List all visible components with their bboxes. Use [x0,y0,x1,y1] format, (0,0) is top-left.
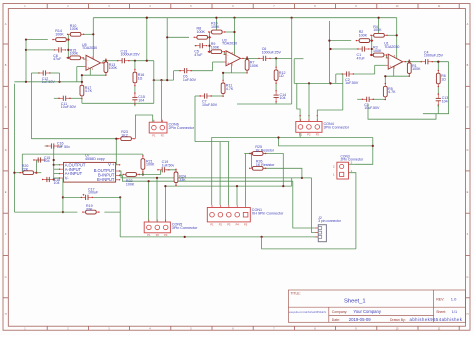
junction [148,180,150,182]
junction [408,61,410,63]
wire [175,183,177,186]
junction [58,81,60,83]
wire [223,52,225,55]
junction [384,75,386,77]
svg-text:D: D [467,149,469,152]
wire [81,97,83,99]
junction [62,196,64,198]
junction [208,51,210,53]
wire [234,18,236,55]
junction [142,173,144,175]
svg-text:+: + [227,61,229,65]
wire [387,34,397,36]
wire [194,96,196,142]
wire [63,196,81,198]
junction [115,138,117,140]
wire [231,63,233,73]
wire [228,142,230,205]
wire [82,74,106,76]
wire [215,18,217,30]
wire [59,73,61,82]
wire [21,154,23,173]
wire [312,178,315,233]
wire [76,67,78,74]
wire [53,49,55,51]
wire [120,236,318,238]
junction [437,61,439,63]
svg-text:P3: P3 [316,133,320,137]
resistor R23 [117,130,134,140]
svg-text:easyeda.com/abhishek9654abhi: easyeda.com/abhishek9654abhi [289,310,327,314]
capacitor C13 [436,93,449,105]
wire [164,186,166,222]
wire [148,181,150,222]
wire [437,105,439,107]
svg-text:C15104: C15104 [138,95,145,102]
wire [13,84,15,212]
capacitor C6 [258,47,281,61]
wire [384,76,386,83]
wire [102,61,104,63]
capacitor C1 [357,46,370,60]
wire [103,60,118,62]
wire [219,142,221,205]
junction [146,17,148,19]
resistor R15 [67,48,84,59]
wire [357,48,359,50]
svg-text:C15104: C15104 [44,156,51,163]
resistor R11 [221,80,234,97]
resistor R10 [208,22,225,34]
resistor R12 [274,67,285,84]
svg-text:+: + [87,66,89,70]
junction [166,36,168,38]
capacitor C12 [38,70,55,84]
wire [82,102,154,104]
junction [236,185,238,187]
wire [251,154,253,169]
resistor R10 [67,24,84,36]
wire [385,75,409,77]
capacitor C18 [42,177,60,185]
svg-text:D: D [5,149,7,152]
wire [378,18,380,34]
wire [167,36,189,38]
resistor R24 [174,169,186,186]
wire [270,57,292,59]
junction [251,152,253,154]
wire [92,196,120,198]
resistor R16 [133,69,144,86]
wire [372,98,385,100]
connector J2 [315,216,342,242]
junction [92,33,94,35]
wire [437,62,439,71]
wire [120,171,312,178]
svg-text:P2: P2 [307,133,311,137]
svg-text:P3: P3 [227,222,231,226]
wire [105,73,107,76]
wire [308,83,310,121]
svg-text:Company:: Company: [332,310,348,314]
resistor R22 [123,173,140,187]
capacitor C5 [194,43,207,57]
wire [279,138,373,146]
wire [134,104,136,106]
junction [329,82,331,84]
svg-text:C: C [5,106,7,109]
svg-text:C: C [467,106,469,109]
wire [437,87,439,95]
wire [294,82,343,84]
junction [25,81,27,83]
svg-text:H: H [5,313,7,316]
wire [153,61,155,104]
wire [353,73,374,75]
resistor R7 [245,56,259,73]
resistor R4 [370,25,387,37]
connector CON3 [333,154,364,179]
op-amp U7 4558D [59,154,121,182]
wire [384,98,386,100]
wire [423,62,449,114]
svg-text:P1: P1 [210,222,214,226]
svg-text:1/1: 1/1 [452,310,457,314]
wire [142,154,144,156]
wire [54,177,60,179]
junction [291,17,293,19]
wire [263,154,283,187]
wire [195,95,201,97]
junction [372,145,374,147]
capacitor C11 [58,96,76,109]
wire [31,72,39,74]
svg-text:Drawn By:: Drawn By: [390,318,406,322]
wire [26,49,55,51]
svg-text:R231K2: R231K2 [121,130,128,137]
wire [54,173,60,175]
junction [67,57,69,59]
wire [83,58,86,60]
wire [14,172,20,174]
resistor R13 [104,59,118,76]
wire [26,39,48,41]
wire [244,153,251,155]
svg-text:G: G [5,276,7,279]
connector CON5 [144,220,198,238]
capacitor C3 [362,97,380,110]
wire [54,164,60,166]
wire [210,95,223,97]
wire [174,70,181,72]
capacitor C4 [421,50,444,64]
svg-text:P1: P1 [299,133,303,137]
wire [156,178,158,222]
wire [328,21,330,83]
junction [208,36,210,38]
title block [288,290,465,322]
wire [357,98,363,100]
wire [134,86,136,94]
wire [135,115,152,139]
svg-text:2019-05-09: 2019-05-09 [349,317,372,322]
op-amp U5 [82,43,104,71]
svg-text:R1922K: R1922K [86,204,93,211]
svg-text:G: G [467,276,469,279]
wire [35,160,37,173]
resistor R6 [436,70,446,87]
junction [67,49,69,51]
resistor R17 [80,82,93,99]
junction [329,48,331,50]
wire [317,236,319,238]
capacitor C16 [46,142,70,149]
wire [222,73,224,80]
capacitor C6 [179,68,196,82]
junction [282,185,284,187]
svg-text:P4: P4 [236,222,240,226]
wire [115,164,118,166]
wire [437,105,439,114]
junction [261,236,263,238]
junction [13,172,15,174]
wire [129,60,154,62]
resistor R2 [356,30,373,43]
capacitor C8 [53,47,66,61]
wire [45,145,49,147]
junction [67,39,69,41]
wire [375,64,386,66]
junction [371,54,373,56]
wire [209,32,211,52]
junction [53,159,55,161]
wire [36,159,44,161]
junction [160,79,162,81]
wire [120,174,122,176]
wire [134,61,136,70]
junction [371,40,373,42]
svg-text:R2433K: R2433K [179,175,186,182]
wire [223,72,247,74]
wire [81,81,83,84]
junction [275,57,277,59]
wire [374,65,376,74]
wire [115,139,117,165]
junction [81,74,83,76]
wire [291,178,293,186]
junction [437,61,439,63]
connector CON1 [207,205,284,226]
svg-text:R61Ω: R61Ω [441,74,446,81]
junction [233,31,235,33]
svg-text:Your Company: Your Company [353,309,381,314]
resistor R14 [52,29,69,42]
wire [142,172,144,175]
wire [25,40,27,82]
wire [244,154,246,206]
junction [25,39,27,41]
op-amp U1 [384,42,406,70]
capacitor C2 [342,71,359,85]
wire [46,179,49,181]
wire [244,153,245,155]
wire [246,70,248,73]
junction [81,81,83,83]
svg-text:+: + [389,65,391,69]
junction [208,45,210,47]
svg-text:R2022K: R2022K [22,164,29,171]
wire [77,66,84,68]
op-amp U3 [222,38,244,66]
capacitor C17 [81,187,99,200]
junction [53,178,55,180]
resistor R1 [407,60,421,77]
svg-text:1.0: 1.0 [451,297,457,302]
junction [156,177,158,179]
wire [30,73,32,139]
wire [117,153,143,155]
junction [164,185,166,187]
wire [54,168,60,170]
junction [371,48,373,50]
wire [22,153,117,155]
wire [275,83,277,91]
junction [222,72,224,74]
wire [275,58,277,67]
resistor R21 [141,155,155,172]
wire [36,172,41,174]
wire [237,103,292,105]
wire [263,168,302,178]
junction [396,34,398,36]
wire [119,197,121,237]
wire [432,61,448,63]
wire [408,74,410,77]
wire [275,102,277,104]
wire [212,62,214,71]
svg-text:C18104: C18104 [54,178,61,185]
junction [233,17,235,19]
CON4 pin riser dots [299,115,300,116]
resistor R5 [383,83,396,100]
wire [213,61,224,63]
wire [146,18,148,61]
capacitor C7 [200,93,218,106]
svg-text:P5: P5 [244,222,248,226]
wire [291,18,293,104]
svg-text:P2: P2 [161,133,165,137]
capacitor C15 [33,156,50,163]
resistor R8 [194,27,211,40]
svg-text:V +: V + [108,162,115,167]
wire [294,58,303,60]
wire [387,57,389,59]
junction [328,40,330,42]
svg-text:REV:: REV: [436,298,444,302]
resistor R26 [249,160,275,171]
wire [317,110,343,122]
svg-text:TITLE:: TITLE: [290,292,300,296]
svg-text:Sheet_1: Sheet_1 [344,298,366,304]
wire [104,211,120,213]
wire [139,170,161,175]
wire [84,33,94,35]
wire [329,40,351,42]
svg-text:P3: P3 [164,233,168,237]
wire [341,74,344,110]
capacitor C19 [157,160,174,172]
junction [246,57,248,59]
junction [25,49,27,51]
wire [195,141,229,143]
wire [62,178,64,212]
wire [76,73,78,82]
wire [355,138,373,165]
svg-text:H: H [467,313,469,316]
wire [165,185,291,187]
wire [236,186,238,205]
svg-text:B+INPUT: B+INPUT [97,177,115,182]
wire [225,31,235,33]
capacitor C15 [132,92,145,104]
junction [134,60,136,62]
wire [120,176,293,182]
wire [371,35,373,55]
svg-text:C13104: C13104 [442,96,449,103]
wire [405,61,421,63]
connector CON4 [296,119,350,137]
wire [154,79,174,81]
wire [59,145,62,147]
wire [195,45,197,47]
wire [81,98,83,103]
wire [81,75,83,82]
wire [349,173,356,249]
wire [293,59,295,84]
junction [146,60,148,62]
wire [191,70,212,72]
wire [166,18,168,80]
junction [153,79,155,81]
junction [184,236,186,238]
wire [89,68,91,75]
svg-text:P1: P1 [152,133,156,137]
wire [299,133,301,138]
wire [93,17,396,19]
wire [50,72,60,74]
resistor R3 [370,46,387,57]
wire [336,73,343,75]
junction [35,172,37,174]
wire [54,97,60,99]
svg-text:abhishek9654abhishek: abhishek9654abhishek [410,317,463,322]
wire [224,54,226,56]
junction [215,17,217,19]
wire [212,138,373,206]
junction [119,196,121,198]
connector CON6 [149,120,194,138]
wire [69,97,82,99]
wire [386,55,388,58]
wire [82,58,84,59]
resistor R19 [82,204,99,214]
wire [67,34,69,58]
svg-text:P1: P1 [147,233,151,237]
wire [166,170,176,172]
wire [31,138,118,140]
junction [277,136,279,138]
svg-text:V-: V- [65,176,70,181]
